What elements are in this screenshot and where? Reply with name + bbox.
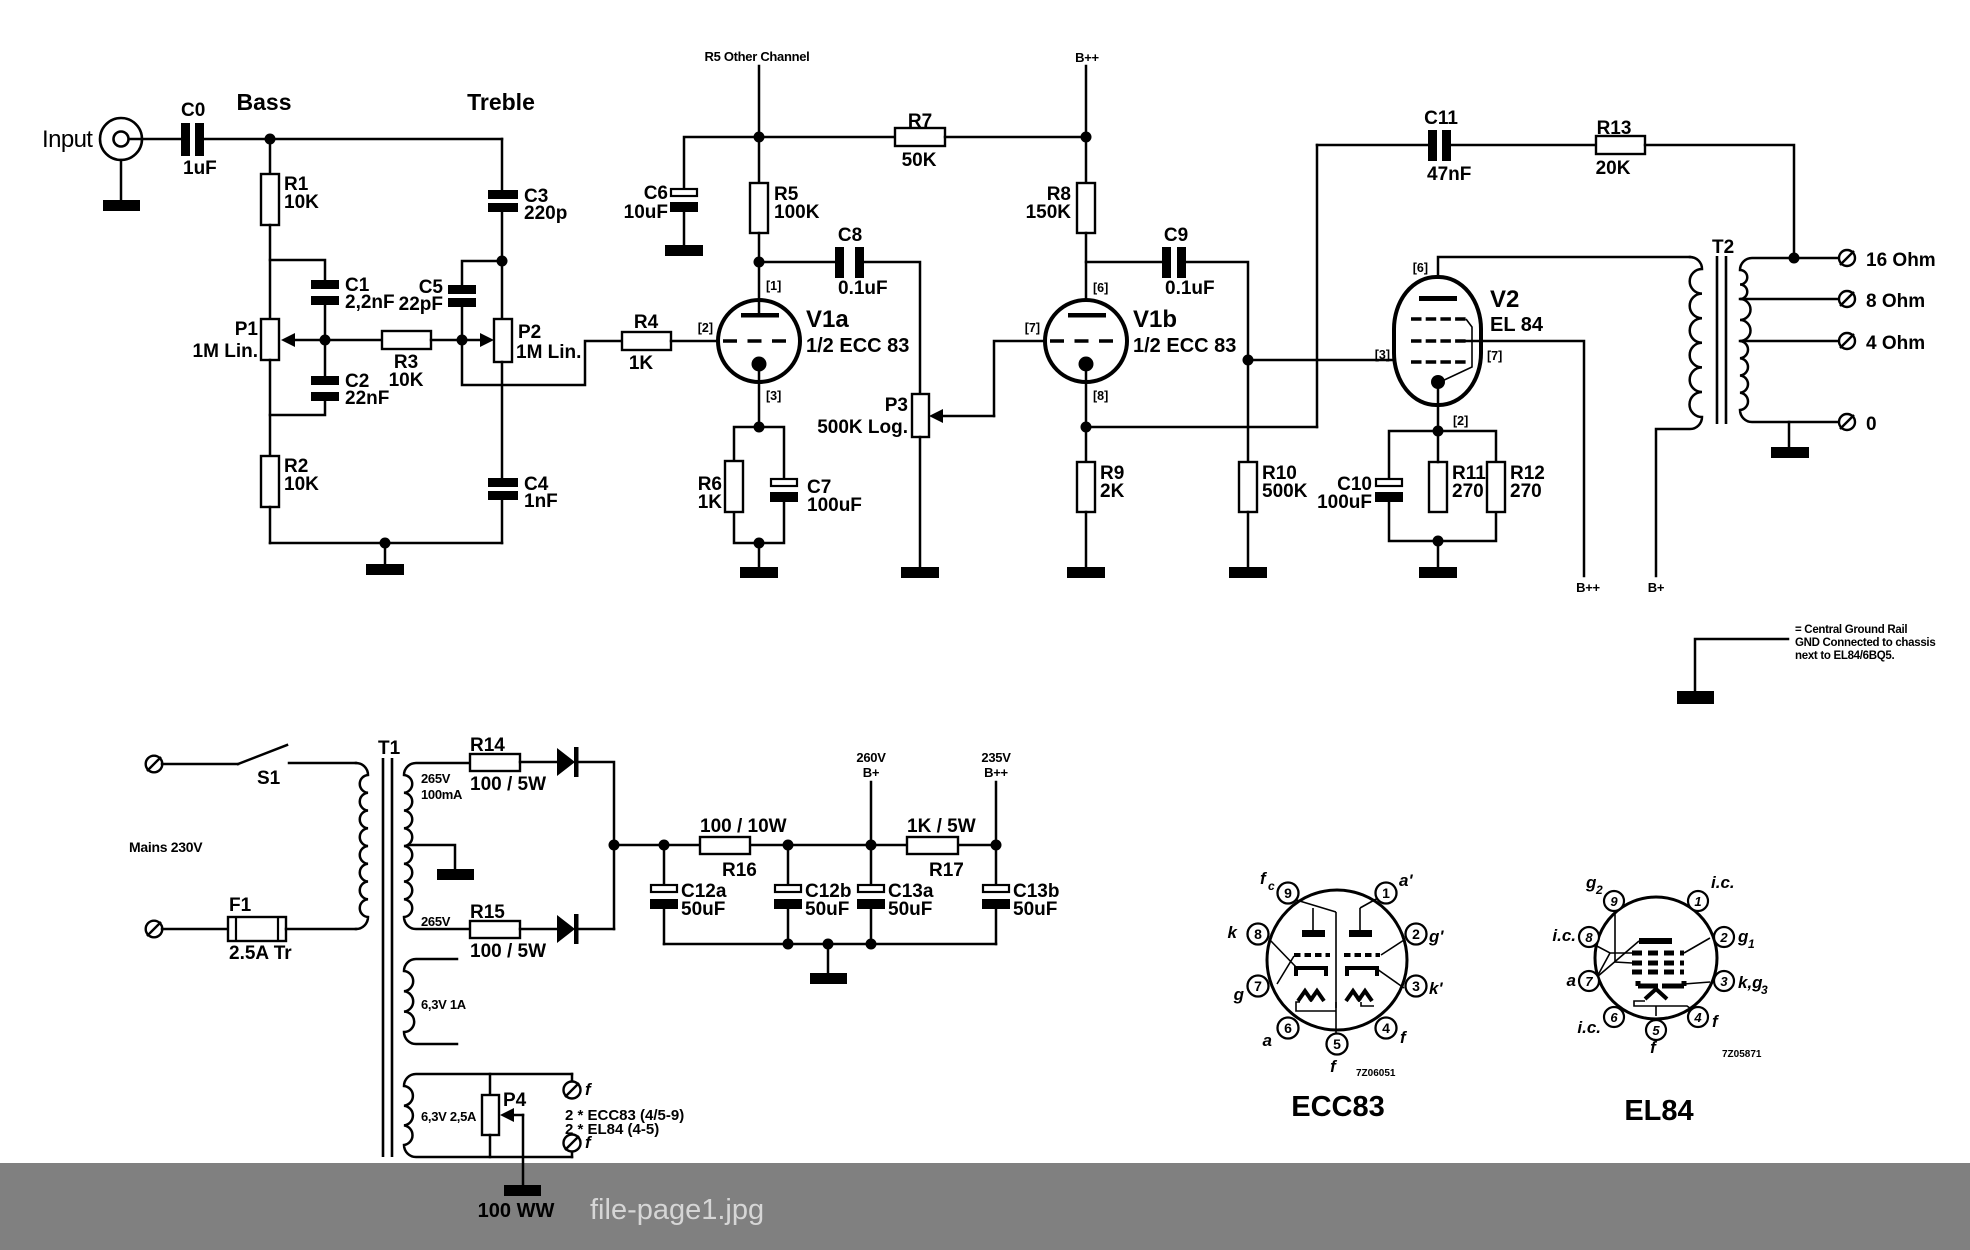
svg-text:g': g' — [1428, 927, 1444, 946]
terminal f bottom — [564, 1133, 594, 1152]
EL84 connector p7 to anode — [1597, 941, 1639, 977]
svg-text:8: 8 — [1585, 930, 1593, 945]
node: 16 ohm tap junction — [1789, 253, 1800, 264]
wire V1b cathode to R9 — [1085, 427, 1088, 462]
wire junction down to R1 — [269, 139, 272, 174]
EL84 pin 5 — [1646, 1020, 1666, 1040]
wire R5 column — [758, 137, 761, 183]
V1a cathode — [752, 357, 767, 428]
svg-text:k,g: k,g — [1738, 973, 1763, 992]
svg-text:V1b: V1b — [1133, 306, 1177, 333]
resistor R9 — [1077, 462, 1125, 512]
svg-text:0.1uF: 0.1uF — [1165, 278, 1215, 299]
wire junction to R7 — [759, 136, 895, 139]
ECC83 pin 8 — [1248, 924, 1269, 945]
T1 6.3V 2.5A winding — [404, 1074, 572, 1157]
svg-text:16 Ohm: 16 Ohm — [1866, 250, 1936, 271]
wire C12b bottom — [787, 909, 790, 944]
svg-text:5: 5 — [1333, 1036, 1341, 1052]
wire R14 to D1 — [520, 761, 557, 764]
svg-text:3: 3 — [1412, 978, 1420, 994]
node: R7/R8 junction — [1081, 132, 1092, 143]
wire P4 wiper to ground — [522, 1115, 525, 1185]
svg-text:R4: R4 — [634, 312, 659, 333]
wire V2 g2 to B++ — [1466, 341, 1584, 576]
svg-text:4: 4 — [1693, 1010, 1702, 1025]
svg-text:B++: B++ — [1576, 580, 1600, 595]
wire C12a bottom — [663, 909, 666, 944]
ECC83 connector p7 to left grid — [1277, 956, 1294, 984]
wire branch to C1 — [270, 260, 325, 280]
capacitor C5 — [399, 277, 476, 315]
EL84 pin 9 — [1604, 891, 1624, 911]
terminal 0 — [1839, 414, 1877, 435]
svg-text:4 Ohm: 4 Ohm — [1866, 333, 1925, 354]
svg-text:1K / 5W: 1K / 5W — [907, 816, 976, 837]
wire R8 to V1b anode — [1085, 233, 1088, 315]
svg-text:C6: C6 — [644, 183, 668, 204]
EL84 pin 3 — [1714, 971, 1734, 991]
wire B+ drop — [870, 782, 873, 885]
wire treble column down to C3 — [501, 139, 504, 190]
svg-text:9: 9 — [1284, 885, 1292, 901]
svg-text:6: 6 — [1610, 1010, 1618, 1025]
EL84 heater bus — [1634, 1001, 1694, 1016]
viewer gray bar — [0, 1163, 1970, 1250]
ECC83 left anode — [1302, 908, 1325, 937]
wire HV center tap — [409, 845, 455, 869]
svg-text:R15: R15 — [470, 902, 505, 923]
wire B++ drop — [1085, 66, 1088, 137]
wire C13b bottom — [995, 909, 998, 944]
EL84 label g2 — [1585, 873, 1603, 897]
EL84 pin 6 — [1604, 1007, 1624, 1027]
svg-text:1/2 ECC 83: 1/2 ECC 83 — [1133, 335, 1236, 357]
svg-text:1K: 1K — [629, 353, 654, 374]
wire cathode to feedback riser — [1086, 426, 1317, 429]
svg-text:3: 3 — [1761, 983, 1768, 997]
triode V1a envelope — [718, 300, 800, 382]
wire anode node to C8 — [759, 261, 835, 264]
wire P1 bottom to R2 — [269, 360, 272, 456]
terminal 8 Ohm — [1839, 291, 1925, 312]
svg-text:8: 8 — [1254, 926, 1262, 942]
wire R10 to ground — [1247, 512, 1250, 567]
svg-text:2K: 2K — [1100, 481, 1125, 502]
node: C5/R3 junction — [457, 335, 468, 346]
EL84 pin 8 — [1579, 927, 1599, 947]
ECC83 connector p3 to right cathode — [1377, 969, 1404, 988]
wire 4 ohm tap — [1740, 340, 1839, 343]
svg-text:500K: 500K — [1262, 481, 1308, 502]
wire C13a bottom — [870, 909, 873, 944]
potentiometer P2 — [494, 319, 581, 363]
wire C8 to P3 — [864, 262, 920, 394]
svg-text:6,3V 1A: 6,3V 1A — [421, 997, 467, 1012]
svg-text:ECC83: ECC83 — [1291, 1091, 1385, 1123]
svg-text:V2: V2 — [1490, 286, 1519, 313]
ground (speaker 0) — [1771, 447, 1809, 458]
P1 wiper arrow — [281, 333, 325, 347]
svg-text:P3: P3 — [885, 395, 908, 416]
wire D2 to junction — [578, 928, 614, 931]
svg-text:c: c — [1268, 879, 1275, 893]
svg-text:EL84: EL84 — [1624, 1095, 1693, 1127]
svg-text:5: 5 — [1652, 1023, 1660, 1038]
fuse F1 — [162, 895, 356, 964]
svg-text:50uF: 50uF — [681, 899, 725, 920]
ground (input jack) — [103, 200, 140, 211]
svg-text:0: 0 — [1866, 414, 1877, 435]
wire feedback riser — [1316, 145, 1319, 427]
svg-text:R13: R13 — [1597, 118, 1632, 139]
EL84 base circle — [1595, 897, 1717, 1019]
svg-text:[8]: [8] — [1093, 389, 1108, 403]
resistor R16 — [700, 816, 787, 881]
EL84 label kg3 — [1738, 973, 1768, 997]
P3 wiper arrow — [929, 409, 994, 423]
svg-text:R16: R16 — [722, 860, 757, 881]
terminal 16 Ohm — [1839, 250, 1936, 271]
svg-text:10K: 10K — [284, 192, 319, 213]
svg-text:2 * EL84 (4-5): 2 * EL84 (4-5) — [565, 1121, 659, 1138]
T2 secondary winding — [1740, 258, 1839, 422]
svg-text:Mains 230V: Mains 230V — [129, 839, 203, 855]
svg-text:22nF: 22nF — [345, 388, 389, 409]
svg-text:B++: B++ — [984, 765, 1008, 780]
svg-text:F1: F1 — [229, 895, 252, 916]
ECC83 pin 5 — [1327, 1034, 1348, 1055]
wire grid node down to R10 — [1247, 360, 1250, 462]
node: input junction — [265, 134, 276, 145]
wire tone stack bottom rail — [270, 542, 502, 545]
svg-text:= Central Ground Rail: = Central Ground Rail — [1795, 624, 1907, 636]
wire V1b grid to P3 wiper — [994, 341, 1045, 416]
label heater assignments — [565, 1107, 684, 1138]
node: C12a junction — [659, 840, 670, 851]
wire input to C0 — [129, 138, 181, 141]
svg-text:9: 9 — [1610, 894, 1618, 909]
ECC83 pin 7 — [1248, 976, 1269, 997]
svg-text:C8: C8 — [838, 225, 862, 246]
ground (V2 cathode) — [1419, 567, 1457, 578]
wire to heater terminal bottom — [571, 1151, 574, 1157]
resistor R5 — [750, 183, 820, 233]
wire P3 to ground — [919, 437, 922, 567]
resistor R11 — [1429, 462, 1486, 512]
terminal mains live — [146, 756, 163, 773]
ground (C6) — [665, 245, 703, 256]
svg-text:EL 84: EL 84 — [1490, 314, 1544, 336]
svg-text:2.5A Tr: 2.5A Tr — [229, 943, 292, 964]
resistor R1 — [261, 174, 319, 225]
T2 core — [1717, 256, 1726, 424]
V2 anode — [1419, 296, 1457, 301]
svg-text:B+: B+ — [863, 765, 880, 780]
svg-text:i.c.: i.c. — [1552, 926, 1576, 945]
wire C4 to bottom rail — [501, 500, 504, 543]
svg-text:8 Ohm: 8 Ohm — [1866, 291, 1925, 312]
wire anode node to C9 — [1086, 261, 1162, 264]
svg-text:0.1uF: 0.1uF — [838, 278, 888, 299]
svg-text:6: 6 — [1284, 1020, 1292, 1036]
ground (P3) — [901, 567, 939, 578]
ECC83 left grid — [1294, 953, 1330, 957]
switch S1 — [162, 745, 356, 789]
svg-text:C11: C11 — [1424, 108, 1458, 129]
wire R15 to D2 — [520, 928, 557, 931]
svg-text:B++: B++ — [1075, 50, 1099, 65]
svg-text:7Z06051: 7Z06051 — [1356, 1068, 1396, 1079]
node: bottom rail C12b — [783, 939, 794, 950]
wire R1 to P1 — [269, 225, 272, 319]
svg-text:B+: B+ — [1648, 580, 1665, 595]
V1b grid (dashed) — [1050, 339, 1117, 342]
wire B++ to R8 — [1085, 137, 1088, 183]
svg-text:V1a: V1a — [806, 306, 849, 333]
P4 wiper arrow — [500, 1108, 523, 1122]
V1a anode — [741, 262, 779, 318]
wire wiper node to R3 — [325, 339, 382, 342]
wire stem to ground — [384, 543, 387, 564]
label 235V B++ — [981, 750, 1011, 780]
ground (tone stack) — [366, 564, 404, 575]
ECC83 pin 9 — [1278, 883, 1299, 904]
capacitor C7 electrolytic — [770, 477, 862, 516]
EL84 pin 2 — [1714, 927, 1734, 947]
capacitor C4 — [488, 474, 558, 512]
EL84 cathode — [1638, 981, 1684, 986]
capacitor C13b electrolytic — [982, 881, 1059, 920]
capacitor C10 electrolytic — [1317, 474, 1403, 513]
wire other channel drop — [758, 66, 761, 137]
svg-text:2: 2 — [1719, 930, 1728, 945]
svg-text:[6]: [6] — [1413, 261, 1428, 275]
wire stem to ground — [758, 543, 761, 567]
wire junction to C6 — [684, 137, 759, 189]
wire B++ drop — [995, 782, 998, 885]
wire C3 to P2 top — [501, 212, 504, 319]
EL84 grid rows — [1632, 953, 1684, 972]
V2 beam plate connector — [1440, 319, 1472, 382]
potentiometer P4 — [482, 1074, 527, 1157]
ECC83 pin 1 — [1376, 883, 1397, 904]
T1 6.3V 1A winding — [404, 959, 457, 1044]
svg-text:g: g — [1233, 985, 1245, 1004]
wire R13 to 16 ohm tap — [1645, 145, 1794, 258]
ECC83 pin 6 — [1278, 1018, 1299, 1039]
wire grid node to V2 — [1248, 359, 1394, 362]
T1 core — [383, 758, 392, 1157]
ECC83 connector p9 to heater center — [1293, 899, 1336, 912]
node: R7/R5 junction — [754, 132, 765, 143]
EL84 connector p2 to g1 — [1684, 938, 1710, 953]
wire wiper node down to C2 — [324, 340, 327, 376]
ECC83 connector p1 to anode — [1360, 898, 1378, 908]
svg-text:270: 270 — [1452, 481, 1484, 502]
diode D1 — [557, 747, 579, 777]
wire C5 top branch — [462, 261, 502, 285]
ECC83 right grid — [1344, 953, 1380, 957]
svg-text:[7]: [7] — [1025, 321, 1040, 335]
wire R4 to V1a grid — [671, 340, 718, 343]
svg-text:220p: 220p — [524, 203, 567, 224]
resistor R12 — [1487, 462, 1545, 512]
EL84 anode bar — [1639, 938, 1672, 944]
capacitor C6 electrolytic — [624, 183, 698, 223]
wire C12a top — [663, 845, 666, 885]
wire C11 to R13 — [1451, 144, 1596, 147]
ECC83 connector p8 to left cathode — [1270, 940, 1296, 967]
wire stem to ground — [1437, 541, 1440, 567]
pentode V2 envelope — [1394, 277, 1481, 405]
svg-text:100uF: 100uF — [1317, 492, 1372, 513]
ECC83 connector p2 to right grid — [1381, 940, 1404, 955]
capacitor C1 — [311, 275, 395, 313]
svg-text:7Z05871: 7Z05871 — [1722, 1049, 1762, 1060]
ground (R10) — [1229, 567, 1267, 578]
resistor R14 — [470, 735, 546, 795]
svg-text:i.c.: i.c. — [1577, 1018, 1601, 1037]
ECC83 pin 3 — [1406, 976, 1427, 997]
input connector J1 — [100, 118, 142, 160]
capacitor C2 — [311, 371, 389, 409]
wire filter rail top — [614, 844, 996, 847]
wire riser to C11 — [1317, 144, 1428, 147]
svg-text:20K: 20K — [1596, 158, 1631, 179]
potentiometer P3 — [817, 394, 929, 438]
ground (center tap) — [437, 869, 474, 880]
EL84 connector p3 to cathode — [1684, 982, 1710, 984]
svg-text:10uF: 10uF — [624, 202, 668, 223]
ECC83 right cathode — [1347, 968, 1377, 976]
svg-text:k: k — [1228, 923, 1239, 942]
svg-text:[3]: [3] — [1375, 348, 1390, 362]
svg-text:100mA: 100mA — [421, 787, 463, 802]
node: V1a cathode junction — [754, 422, 765, 433]
capacitor C3 — [488, 186, 567, 224]
wire input jack to ground — [120, 160, 123, 200]
svg-text:a: a — [1263, 1031, 1272, 1050]
svg-text:S1: S1 — [257, 768, 281, 789]
ground (hum pot 100 WW) — [478, 1185, 555, 1222]
wire C0 to treble column — [204, 138, 502, 141]
label 265V 100mA — [421, 771, 463, 802]
svg-text:260V: 260V — [856, 750, 886, 765]
svg-text:1/2 ECC 83: 1/2 ECC 83 — [806, 335, 909, 357]
svg-text:a': a' — [1399, 871, 1413, 890]
svg-text:50uF: 50uF — [888, 899, 932, 920]
svg-text:1uF: 1uF — [183, 158, 217, 179]
svg-text:C0: C0 — [181, 100, 205, 121]
svg-text:k': k' — [1429, 979, 1443, 998]
svg-text:R14: R14 — [470, 735, 505, 756]
svg-text:[2]: [2] — [698, 321, 713, 335]
node: C12b junction — [783, 840, 794, 851]
node: V2 cathode junction — [1433, 426, 1444, 437]
svg-text:500K Log.: 500K Log. — [817, 417, 908, 438]
resistor R13 — [1596, 118, 1645, 179]
svg-text:100 / 10W: 100 / 10W — [700, 816, 787, 837]
svg-text:1: 1 — [1748, 937, 1755, 951]
svg-text:100K: 100K — [774, 202, 820, 223]
svg-text:10K: 10K — [284, 474, 319, 495]
svg-text:T2: T2 — [1712, 237, 1734, 258]
svg-text:22pF: 22pF — [399, 294, 443, 315]
ECC83 base circle — [1267, 890, 1407, 1030]
svg-text:100 / 5W: 100 / 5W — [470, 774, 546, 795]
node: cathode network bottom — [754, 538, 765, 549]
svg-text:47nF: 47nF — [1427, 164, 1471, 185]
ECC83 right heater — [1346, 991, 1372, 1001]
node: C5 top junction — [497, 256, 508, 267]
node: bottom rail ground stem — [823, 939, 834, 950]
node: cathode network bottom — [1433, 536, 1444, 547]
svg-text:2,2nF: 2,2nF — [345, 292, 395, 313]
wire C6 to ground — [683, 212, 686, 245]
svg-text:Input: Input — [42, 126, 93, 153]
node: C13a junction — [866, 840, 877, 851]
svg-text:100 / 5W: 100 / 5W — [470, 941, 546, 962]
central ground rail note — [1677, 624, 1935, 704]
svg-text:265V: 265V — [421, 914, 451, 929]
svg-text:[7]: [7] — [1487, 349, 1502, 363]
ground (filter) — [810, 973, 847, 984]
EL84 connector p9 to g2 — [1615, 911, 1632, 963]
wire C1 to wiper node — [324, 305, 327, 340]
svg-text:[1]: [1] — [766, 279, 781, 293]
svg-text:i.c.: i.c. — [1711, 873, 1735, 892]
T2 primary winding — [1656, 257, 1702, 576]
wire C5 bottom to junction — [461, 307, 464, 340]
ECC83 left heater — [1298, 991, 1324, 1001]
label 260V B+ — [856, 750, 886, 780]
terminal mains neutral — [146, 921, 163, 938]
wire R5 to anode node — [758, 233, 761, 262]
EL84 heater chevron — [1645, 989, 1667, 999]
EL84 pin 4 — [1688, 1007, 1708, 1027]
capacitor C12b electrolytic — [774, 881, 851, 920]
svg-text:1: 1 — [1694, 894, 1701, 909]
svg-text:2: 2 — [1595, 883, 1603, 897]
ECC83 pin 2 — [1406, 924, 1427, 945]
V2 cathode — [1431, 375, 1445, 431]
capacitor C9 — [1162, 225, 1215, 299]
svg-text:P1: P1 — [235, 319, 259, 340]
capacitor C11 — [1424, 108, 1471, 185]
svg-text:T1: T1 — [378, 738, 401, 759]
wire C12b top — [787, 845, 790, 885]
V1a grid (dashed) — [723, 339, 790, 342]
resistor R10 — [1239, 462, 1308, 512]
wire P2 bottom to C4 — [501, 362, 504, 478]
node: V1a anode junction — [754, 257, 765, 268]
resistor R7 — [895, 111, 945, 171]
EL84 pin 7 — [1579, 971, 1599, 991]
svg-text:7: 7 — [1254, 978, 1262, 994]
potentiometer P1 — [193, 319, 279, 362]
svg-text:1M Lin.: 1M Lin. — [193, 341, 258, 362]
svg-text:4: 4 — [1382, 1020, 1390, 1036]
svg-text:R5 Other Channel: R5 Other Channel — [705, 49, 810, 64]
ECC83 right anode — [1349, 908, 1372, 937]
svg-text:7: 7 — [1585, 974, 1593, 989]
EL84 connector p8 stub — [1593, 944, 1632, 975]
svg-text:1: 1 — [1382, 885, 1390, 901]
node: R10/V2 grid junction — [1243, 355, 1254, 366]
wire stem to ground — [827, 944, 830, 973]
wire V2 anode to T2 — [1438, 257, 1690, 277]
